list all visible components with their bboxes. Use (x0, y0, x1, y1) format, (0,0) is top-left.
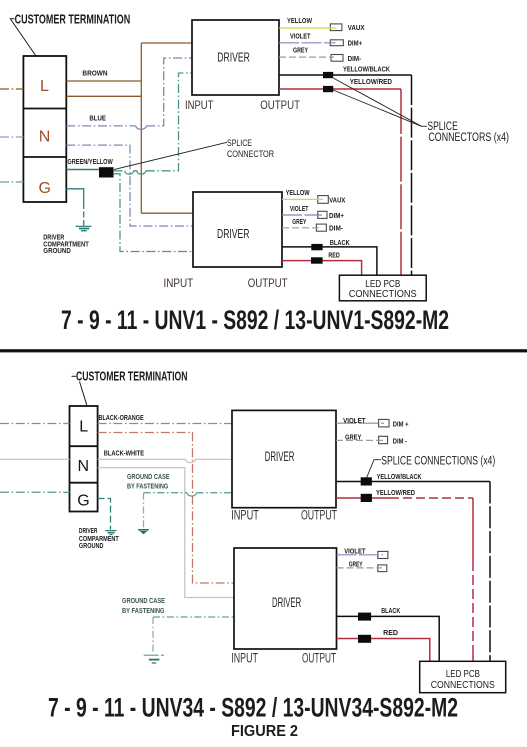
connector DIM- (driver U3) (379, 436, 388, 443)
svg-text:GREY: GREY (292, 217, 306, 226)
wire stub line G (left) (0, 181, 23, 183)
svg-text:CUSTOMER TERMINATION: CUSTOMER TERMINATION (76, 369, 188, 384)
svg-text:INPUT: INPUT (185, 98, 214, 112)
svg-text:DRIVER: DRIVER (217, 49, 250, 64)
svg-text:COMPARMENT: COMPARMENT (79, 536, 119, 543)
svg-text:GROUND CASE: GROUND CASE (127, 472, 170, 481)
svg-text:7 - 9 - 11 - UNV34 - S892 / 13: 7 - 9 - 11 - UNV34 - S892 / 13-UNV34-S89… (48, 693, 458, 723)
svg-text:OUTPUT: OUTPUT (248, 276, 288, 290)
leader lines to splice connectors label (333, 78, 421, 126)
svg-text:GREY: GREY (293, 46, 308, 55)
wire black (driver U4) (337, 616, 440, 661)
label DRIVER COMPARTMENT GROUND (43, 235, 89, 255)
svg-text:BLACK: BLACK (330, 238, 350, 247)
wire blue N upper with hop (66, 125, 136, 127)
svg-text:RED: RED (328, 250, 340, 259)
svg-text:DIM-: DIM- (348, 54, 362, 63)
connector DIM- (driver U4, unlabeled) (378, 565, 387, 572)
label GROUND CASE BY FASTENING (upper) (127, 472, 170, 490)
svg-text:YELLOW/RED: YELLOW/RED (376, 488, 415, 497)
wire green/yellow after splice with two hops, up to driver1 (114, 170, 125, 172)
svg-text:CONNECTIONS: CONNECTIONS (431, 680, 495, 691)
svg-text:N: N (39, 128, 51, 145)
wire brown L lower (66, 95, 141, 97)
wire G to driver compartment ground (66, 189, 83, 203)
wire yellow (driver U2) (282, 198, 323, 200)
driver U1 (top) (192, 20, 279, 95)
svg-text:GROUND: GROUND (43, 248, 71, 255)
svg-text:BROWN: BROWN (82, 69, 107, 78)
wire violet (driver U1) (279, 42, 336, 44)
connector DIM- (driver U2) (316, 224, 326, 231)
wire stub line L (left) (0, 88, 23, 90)
svg-text:DIM-: DIM- (329, 224, 343, 233)
leader line to splice (367, 460, 382, 478)
svg-text:G: G (39, 180, 51, 197)
svg-text:SPLICE: SPLICE (227, 138, 252, 148)
svg-text:G: G (77, 492, 89, 509)
svg-text:BLACK: BLACK (381, 606, 401, 615)
wire ground case (lower) to driver U4 (153, 616, 234, 618)
wire yellow/black (driver U1) (279, 74, 412, 76)
wire violet (driver U2) (282, 214, 322, 216)
wire red (driver U2) (282, 261, 362, 276)
ground case symbol (upper): dashed drop and chassis arrow (143, 493, 145, 529)
wire yellow/red (driver U1) (279, 88, 401, 90)
wire yellow/black vertical to LED PCB (411, 75, 413, 275)
section divider (0, 349, 527, 352)
wire red (driver U4) (337, 639, 430, 662)
wire brown to driver1 input (141, 42, 192, 44)
wire stub line L (left, section 2) (0, 423, 70, 425)
wire yellow/red vertical to LED PCB (400, 89, 402, 275)
label DRIVER COMPARMENT GROUND (section 2) (79, 528, 119, 550)
terminal block (L N G) section 2 (70, 406, 98, 512)
splice connector on black (U4) (358, 613, 371, 621)
svg-text:SPLICE CONNECTIONS (x4): SPLICE CONNECTIONS (x4) (381, 456, 495, 468)
driver U2 (second) (193, 192, 282, 267)
splice connector on black (311, 244, 322, 250)
svg-text:VIOLET: VIOLET (343, 416, 366, 425)
svg-text:VAUX: VAUX (348, 23, 365, 32)
wire brown to driver2 input (141, 212, 193, 214)
svg-text:YELLOW/BLACK: YELLOW/BLACK (377, 472, 422, 481)
svg-text:BLACK-ORANGE: BLACK-ORANGE (99, 413, 144, 422)
wire grey (driver U4) (337, 567, 383, 569)
connector DIM+ (driver U1) (330, 40, 343, 46)
svg-text:GREEN/YELLOW: GREEN/YELLOW (67, 157, 113, 166)
wire green/yellow from G (66, 169, 99, 171)
svg-text:GREY: GREY (345, 433, 361, 442)
label GROUND CASE BY FASTENING (lower) (122, 596, 165, 615)
svg-text:BLACK-WHITE: BLACK-WHITE (104, 448, 144, 457)
connector DIM- (driver U1) (331, 55, 343, 62)
svg-text:OUTPUT: OUTPUT (260, 98, 300, 112)
svg-text:INPUT: INPUT (231, 650, 258, 665)
svg-text:DRIVER: DRIVER (265, 449, 295, 464)
wire violet (driver U4) (337, 554, 384, 556)
svg-text:VIOLET: VIOLET (290, 204, 309, 213)
wire yellow (driver U1) (279, 27, 336, 29)
svg-text:DRIVER: DRIVER (272, 595, 301, 610)
label CUSTOMER TERMINATION (section 1) (10, 11, 130, 56)
svg-text:DIM+: DIM+ (329, 211, 345, 220)
splice connector on yellow/red (323, 86, 333, 92)
svg-text:BLUE: BLUE (89, 114, 106, 123)
svg-text:BY FASTENING: BY FASTENING (127, 481, 168, 490)
svg-text:INPUT: INPUT (231, 508, 259, 523)
svg-text:DRIVER: DRIVER (79, 528, 98, 535)
svg-text:BY FASTENING: BY FASTENING (122, 606, 165, 615)
driver U3 (third) (232, 410, 336, 507)
svg-text:N: N (78, 458, 90, 475)
splice connector (black) on green/yellow (99, 167, 114, 177)
connector VAUX (driver U1) (330, 24, 342, 31)
wire grey (driver U3) (336, 439, 383, 441)
wire yellow/black (driver U3) (336, 481, 490, 483)
wire stub line N (left) (0, 136, 23, 138)
svg-text:FIGURE 2: FIGURE 2 (231, 723, 298, 740)
svg-text:VIOLET: VIOLET (290, 31, 311, 40)
wire black-orange to driver U4 (98, 433, 234, 584)
wire grey (driver U2) (282, 227, 321, 229)
svg-text:CONNECTORS (x4): CONNECTORS (x4) (428, 132, 509, 144)
splice connector on yellow/black (U3) (361, 477, 372, 485)
svg-text:GREY: GREY (349, 560, 363, 569)
leader line to splice connector label (114, 142, 227, 169)
splice connector on yellow/red (U3) (361, 494, 372, 502)
svg-text:RED: RED (383, 628, 398, 637)
wire black-orange to driver U3 (98, 423, 232, 425)
wire blue N lower to driver2 (66, 145, 193, 226)
svg-text:DIM -: DIM - (393, 437, 408, 446)
wire green/yellow branch down to driver2 (114, 174, 194, 252)
connector DIM+ (driver U3) (379, 419, 389, 427)
svg-text:VIOLET: VIOLET (344, 547, 366, 556)
svg-text:DRIVER: DRIVER (217, 226, 250, 241)
wire yellow/black vertical (dashed) to LED PCB (section 2) (489, 482, 491, 662)
svg-text:CONNECTOR: CONNECTOR (227, 149, 274, 159)
svg-text:GROUND CASE: GROUND CASE (122, 596, 165, 605)
wire yellow/red vertical (dashed) to LED PCB (section 2) (472, 498, 474, 561)
connector DIM+ (driver U4, unlabeled) (378, 551, 388, 558)
svg-text:YELLOW/RED: YELLOW/RED (350, 77, 393, 86)
connector VAUX (driver U2) (318, 196, 329, 204)
svg-text:VAUX: VAUX (329, 196, 345, 205)
svg-text:YELLOW/BLACK: YELLOW/BLACK (343, 64, 390, 73)
svg-text:YELLOW: YELLOW (286, 188, 311, 197)
wire ground case (upper) with hop to driver U3 (144, 492, 188, 494)
svg-text:OUTPUT: OUTPUT (301, 508, 337, 523)
wire G to driver compartment ground (section 2) (98, 499, 111, 530)
splice connector on red (311, 257, 323, 263)
svg-text:INPUT: INPUT (164, 276, 194, 290)
ground symbol (driver compartment ground, section 2) (105, 531, 116, 535)
connector DIM+ (driver U2) (318, 211, 327, 218)
svg-text:CUSTOMER TERMINATION: CUSTOMER TERMINATION (15, 11, 131, 26)
wire black-white to driver U4 (98, 468, 234, 598)
ground symbol (driver compartment ground, section 1) (76, 226, 92, 230)
svg-text:OUTPUT: OUTPUT (302, 650, 336, 665)
svg-text:CONNECTIONS: CONNECTIONS (349, 289, 417, 300)
driver U4 (fourth) (234, 548, 337, 649)
svg-text:L: L (40, 78, 49, 95)
label CUSTOMER TERMINATION (section 2) (72, 369, 188, 406)
wire black-white to driver U3 with hop (98, 459, 232, 462)
wire stub line N (left, section 2) (0, 458, 70, 460)
svg-text:YELLOW: YELLOW (287, 16, 313, 25)
svg-text:DIM+: DIM+ (348, 38, 363, 47)
svg-text:L: L (79, 418, 88, 435)
svg-text:GROUND: GROUND (79, 543, 104, 550)
LED PCB CONNECTIONS box (section 2) (420, 661, 506, 692)
splice connector on red (U4) (358, 635, 371, 643)
svg-text:7 - 9 - 11 - UNV1 - S892 / 13-: 7 - 9 - 11 - UNV1 - S892 / 13-UNV1-S892-… (61, 305, 449, 335)
wire stub line G (left, section 2) (0, 491, 70, 493)
svg-text:DIM +: DIM + (393, 420, 409, 429)
wire brown L upper (66, 80, 141, 82)
wire black (driver U2) (282, 247, 377, 275)
terminal block (L N G) section 1 (23, 56, 66, 202)
splice connector on yellow/black (323, 72, 333, 78)
LED PCB CONNECTIONS box (section 1) (339, 275, 426, 301)
wire violet (driver U3) (336, 422, 384, 424)
wire grey (driver U1) (279, 56, 334, 58)
wire yellow/red (driver U3) (336, 497, 390, 499)
ground case symbol (lower): dashed drop and ground bars (152, 617, 154, 654)
svg-text:LED PCB: LED PCB (446, 669, 480, 680)
wire brown vertical (140, 43, 142, 213)
